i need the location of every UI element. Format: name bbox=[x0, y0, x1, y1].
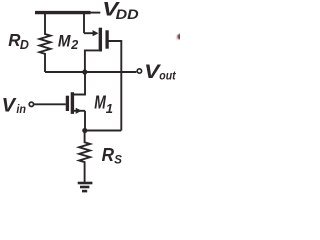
M1 drain lead bbox=[74, 75, 85, 95]
transistor M1 bbox=[67, 75, 85, 131]
svg-text:M: M bbox=[58, 31, 71, 50]
M2 gate bar bbox=[105, 30, 108, 48]
input terminal Vin bbox=[29, 102, 33, 106]
label M1 bbox=[94, 92, 113, 116]
svg-text:out: out bbox=[159, 69, 176, 83]
transistor M2 bbox=[84, 13, 121, 131]
adjacent page fragment (maroon glyph, clipped at edge) bbox=[176, 34, 183, 40]
M2 source lead with PMOS arrow bbox=[84, 32, 94, 34]
VDD power rail bbox=[35, 11, 100, 14]
M2 source wire to VDD bbox=[83, 13, 85, 34]
label M2 bbox=[58, 31, 78, 52]
M1 channel bar bbox=[71, 92, 74, 114]
resistor RD bbox=[40, 14, 51, 72]
M1 gate bar bbox=[66, 96, 69, 111]
svg-text:R: R bbox=[102, 145, 114, 165]
svg-text:S: S bbox=[114, 154, 122, 166]
label RS bbox=[102, 145, 123, 167]
M1 source lead with NMOS arrow bbox=[74, 110, 85, 112]
label RD bbox=[8, 30, 29, 52]
svg-text:1: 1 bbox=[106, 101, 113, 116]
label Vout bbox=[144, 61, 176, 83]
output terminal circle bbox=[137, 69, 141, 73]
svg-text:R: R bbox=[8, 30, 21, 50]
ground bbox=[78, 183, 93, 191]
node drain of M1 (junction dot) bbox=[82, 69, 87, 74]
svg-text:V: V bbox=[2, 95, 18, 117]
M2 channel bar bbox=[99, 28, 102, 52]
label VDD bbox=[102, 0, 138, 22]
wire output node line bbox=[45, 71, 136, 73]
M2 gate lead bbox=[108, 41, 121, 131]
node source of M1 (junction dot) bbox=[82, 128, 87, 133]
svg-text:in: in bbox=[16, 102, 26, 116]
label Vin bbox=[2, 95, 26, 117]
M2 drain lead bbox=[85, 50, 99, 72]
resistor RS bbox=[79, 131, 90, 183]
svg-text:DD: DD bbox=[116, 6, 139, 22]
M1 source wire bbox=[84, 111, 86, 131]
wire source node to M2 gate bbox=[85, 130, 122, 132]
svg-text:D: D bbox=[20, 38, 29, 52]
wire gate of M1 bbox=[34, 103, 66, 105]
svg-text:2: 2 bbox=[70, 38, 78, 52]
